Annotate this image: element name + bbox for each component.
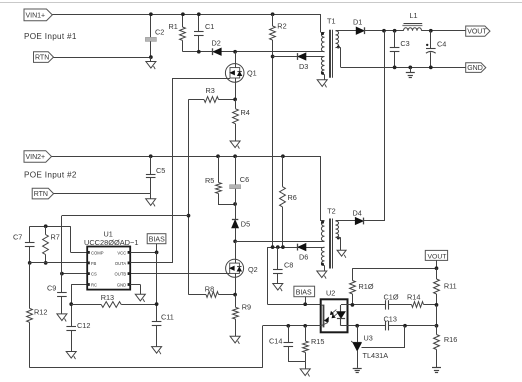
resistor R16	[436, 326, 438, 335]
wire T1 secondary return	[336, 47, 341, 49]
svg-text:C14: C14	[269, 337, 282, 346]
net tag RTN (input 2)	[32, 188, 53, 199]
svg-text:R4: R4	[241, 108, 250, 117]
svg-text:T2: T2	[327, 207, 336, 216]
svg-text:C9: C9	[47, 283, 56, 292]
T1 core	[329, 30, 331, 78]
svg-text:R2: R2	[277, 22, 286, 31]
diode D1	[356, 27, 364, 34]
diode D6	[298, 244, 306, 251]
T1 reset phase dot	[321, 72, 324, 75]
wire bias vertical R2/D3 to D6 node	[272, 40, 274, 247]
svg-text:R1Ø: R1Ø	[359, 282, 374, 291]
ground at C9	[57, 314, 67, 321]
mosfet Q1	[235, 52, 237, 68]
svg-text:R15: R15	[311, 337, 324, 346]
capacitor C6	[233, 154, 237, 158]
capacitor C9	[57, 292, 67, 294]
svg-text:VIN1+: VIN1+	[26, 12, 46, 19]
svg-text:L1: L1	[410, 11, 418, 20]
svg-text:VCC: VCC	[117, 250, 126, 255]
svg-text:C8: C8	[284, 261, 293, 270]
wire OUTA vertical	[172, 78, 174, 263]
wire VIN2+ rail	[52, 156, 321, 158]
junction CS pin / vertical	[60, 272, 64, 276]
resistor R4	[233, 109, 239, 124]
T2 primary winding	[321, 221, 324, 241]
wire D4 to output rail	[364, 220, 384, 222]
junction RC / R13	[69, 302, 73, 306]
ground at C12	[66, 352, 76, 359]
svg-text:Q2: Q2	[248, 265, 258, 274]
svg-text:Q1: Q1	[247, 69, 257, 78]
ground at U1 GND	[135, 294, 145, 301]
svg-text:GND: GND	[467, 65, 483, 72]
wire T2 secondary to D4	[336, 220, 356, 222]
junction C7 bottom / FB line	[28, 261, 32, 265]
wire CS/C9 vertical	[61, 216, 63, 293]
junction VOUT / R11	[435, 266, 439, 270]
svg-text:C11: C11	[161, 313, 174, 322]
resistor R15	[305, 326, 307, 341]
svg-text:TL431A: TL431A	[363, 351, 389, 360]
junction Q2 source / R8 / R9	[233, 293, 237, 297]
junction C3 bottom	[393, 66, 397, 70]
T2 secondary return ground	[336, 237, 341, 239]
wire RTN1	[54, 57, 151, 59]
svg-text:D4: D4	[353, 209, 362, 218]
junction bias vertical	[271, 245, 275, 249]
svg-text:D2: D2	[212, 39, 221, 48]
diode D2	[214, 48, 222, 55]
capacitor C14	[288, 326, 290, 343]
resistor R9	[235, 295, 237, 308]
svg-text:RTN: RTN	[34, 191, 48, 198]
net tag VIN2+	[24, 151, 52, 163]
svg-text:D3: D3	[299, 62, 308, 71]
resistor R7	[44, 224, 48, 228]
capacitor C11	[152, 321, 162, 323]
output top rail	[365, 30, 404, 32]
capacitor C10	[385, 300, 387, 309]
wire CS pin line	[62, 273, 87, 275]
svg-text:R8: R8	[205, 285, 214, 294]
svg-text:C7: C7	[13, 233, 22, 242]
net tag GND	[466, 63, 486, 73]
wire C14/R15 bottom	[288, 361, 305, 363]
junction VCC / BIAS vertical	[155, 251, 159, 255]
junction C4 bottom	[429, 66, 433, 70]
svg-text:R9: R9	[242, 303, 251, 312]
wire VOUT label stub	[436, 260, 438, 268]
T2 reset winding	[321, 247, 324, 265]
ground at C5/RTN2	[150, 194, 152, 199]
capacitor C2	[150, 14, 152, 37]
resistor R3	[189, 99, 205, 101]
net label BIAS at U2	[294, 286, 315, 297]
wire opto emitter line	[263, 325, 321, 327]
wire D3 line	[273, 56, 325, 58]
svg-text:VIN2+: VIN2+	[26, 154, 46, 161]
svg-text:D6: D6	[299, 253, 308, 262]
svg-text:R6: R6	[288, 193, 297, 202]
wire Q2 drain to T2 primary	[235, 241, 324, 243]
junction L1 out / C4 top	[429, 29, 433, 33]
svg-text:VOUT: VOUT	[428, 253, 447, 260]
svg-text:C4: C4	[437, 40, 446, 49]
wire divider to R16	[436, 305, 438, 326]
svg-text:VOUT: VOUT	[467, 29, 487, 36]
resistor R2	[271, 12, 275, 16]
wire BIAS2 stub	[305, 297, 307, 305]
T1 reset ground	[324, 75, 326, 80]
output ground rail	[341, 67, 466, 69]
junction C3 top	[393, 29, 397, 33]
svg-text:R14: R14	[407, 292, 420, 301]
T1 secondary phase dot	[337, 46, 340, 49]
svg-text:BIAS: BIAS	[149, 237, 165, 244]
T2 primary feed	[320, 156, 322, 221]
U2 LED	[341, 304, 348, 306]
wire CS sense vertical	[188, 99, 190, 294]
svg-text:R11: R11	[444, 281, 457, 290]
svg-text:POE Input #1: POE Input #1	[24, 32, 77, 41]
junction C14 top	[286, 324, 290, 328]
svg-text:OUTB: OUTB	[115, 272, 127, 277]
capacitor C8	[277, 247, 279, 270]
diode D3	[298, 53, 306, 60]
capacitor C12	[66, 326, 76, 328]
junction earth ground	[408, 66, 412, 70]
svg-text:R3: R3	[206, 86, 215, 95]
svg-text:C1Ø: C1Ø	[384, 292, 399, 301]
wire COMP network top rail	[30, 226, 71, 228]
wire COMP pin path	[70, 226, 72, 252]
T2 secondary winding	[336, 221, 339, 237]
wire T1 secondary top to D1	[336, 30, 357, 32]
svg-text:U3: U3	[364, 334, 373, 343]
junction C13 / ref vertical	[403, 324, 407, 328]
svg-text:C13: C13	[384, 315, 397, 324]
junction R5 / C6 line	[233, 202, 237, 206]
svg-text:C3: C3	[400, 39, 409, 48]
svg-text:R1: R1	[169, 22, 178, 31]
ground at C2/RTN1	[150, 57, 152, 61]
svg-text:U2: U2	[326, 288, 335, 297]
svg-text:COMP: COMP	[91, 250, 104, 255]
net tag RTN (input 1)	[34, 52, 54, 63]
svg-text:C2: C2	[155, 28, 164, 37]
resistor R5	[216, 154, 220, 158]
svg-text:D1: D1	[353, 18, 362, 27]
svg-text:R5: R5	[205, 176, 214, 185]
resistor R14	[412, 302, 424, 308]
wire feedback bottom rail	[30, 367, 263, 369]
junction BIAS2	[303, 302, 307, 306]
ground at C8	[273, 284, 283, 291]
earth ground output	[410, 67, 412, 72]
capacitor C4 (polarized)	[430, 31, 432, 49]
junction R11 / R14 divider	[435, 303, 439, 307]
junction VIN1 rail / C2	[149, 12, 153, 16]
capacitor C13	[385, 321, 387, 330]
ground at C11	[152, 347, 162, 354]
T1 primary winding	[321, 32, 324, 51]
wire VCC to BIAS	[130, 252, 156, 254]
svg-text:C5: C5	[156, 166, 165, 175]
wire Q1 gate	[173, 78, 230, 80]
svg-text:BIAS: BIAS	[296, 290, 312, 297]
wire bias to opto collector	[267, 247, 269, 304]
capacitor C5	[149, 154, 153, 158]
junction R7 bottom / FB line	[44, 261, 48, 265]
wire opto anode line	[348, 304, 386, 306]
resistor R12	[29, 263, 31, 309]
net tag VOUT (top)	[466, 26, 490, 36]
junction C1 bottom	[197, 50, 201, 54]
T1 secondary winding	[336, 31, 339, 48]
svg-text:C6: C6	[240, 175, 249, 184]
mosfet Q2	[235, 241, 237, 263]
capacitor C7	[29, 226, 31, 242]
earth ground at U3	[353, 368, 362, 370]
earth ground at R16	[432, 367, 441, 369]
ground at R9	[230, 336, 240, 343]
junction R13 right	[155, 302, 159, 306]
wire BIAS vertical to C11	[156, 252, 158, 321]
svg-text:RTN: RTN	[35, 55, 49, 62]
svg-text:C1: C1	[205, 22, 214, 31]
junction Q2 drain node	[233, 239, 237, 243]
T2 secondary phase dot	[337, 237, 340, 240]
wire FB pin line	[30, 262, 87, 264]
wire Q2 gate (OUTB)	[130, 273, 230, 275]
capacitor C1	[198, 14, 200, 32]
diode D4	[355, 218, 363, 225]
T2 primary phase dot	[321, 221, 324, 224]
wire RC pin path	[71, 284, 87, 286]
junction R16 top	[435, 324, 439, 328]
wire D4 feed vertical	[384, 31, 386, 221]
svg-text:R12: R12	[34, 308, 47, 317]
diode D5	[232, 220, 238, 228]
T1 reset winding	[321, 57, 324, 75]
resistor R13	[71, 304, 101, 306]
U2 phototransistor	[323, 305, 325, 328]
U2 light arrows	[332, 310, 337, 314]
wire GND pin	[130, 284, 140, 286]
wire CS horizontal	[62, 215, 189, 217]
net label BIAS at U1	[147, 234, 166, 244]
wire TL431 cathode line	[348, 325, 386, 327]
junction C1 top	[197, 12, 201, 16]
junction Q1 source / R3 / R4	[233, 98, 237, 102]
wire bias line (D6 node)	[267, 247, 324, 249]
junction R10 bottom	[351, 303, 355, 307]
junction CS line	[187, 214, 191, 218]
T1 primary feed	[320, 14, 322, 32]
T1 primary phase dot	[321, 32, 324, 35]
junction Q1 drain node	[233, 50, 237, 54]
svg-text:POE Input #2: POE Input #2	[24, 171, 77, 180]
junction R15 top	[303, 324, 307, 328]
junction R6 bottom	[281, 245, 285, 249]
svg-text:R7: R7	[51, 233, 60, 242]
sheet top border	[0, 2, 522, 4]
wire OUTA pin	[130, 262, 173, 264]
svg-text:D5: D5	[241, 219, 250, 228]
junction D3 line	[271, 55, 275, 59]
resistor R8	[189, 294, 207, 296]
ground at R15	[300, 369, 310, 376]
svg-text:RC: RC	[91, 282, 97, 287]
junction RTN1 / C2	[149, 55, 153, 59]
junction U3 cathode	[355, 324, 359, 328]
wire RTN2	[54, 193, 151, 195]
resistor R11	[436, 268, 438, 279]
wire VIN1+ rail	[52, 14, 321, 16]
resistor R10	[352, 268, 354, 280]
svg-text:R16: R16	[444, 335, 457, 344]
net label VOUT (feedback)	[425, 250, 447, 260]
T2 core	[329, 219, 331, 269]
net tag VIN1+	[24, 9, 52, 21]
junction D4 feed / top rail	[382, 29, 386, 33]
svg-text:FB: FB	[91, 261, 97, 266]
ground at R4	[230, 141, 240, 148]
T2 reset phase dot	[321, 263, 324, 266]
wire ref vertical	[404, 326, 406, 348]
capacitor C3	[394, 31, 396, 48]
inductor L1	[404, 28, 422, 31]
svg-text:C12: C12	[77, 321, 90, 330]
svg-text:OUTA: OUTA	[115, 261, 127, 266]
wire snubber to drain	[183, 51, 325, 53]
resistor R6	[281, 154, 285, 158]
wire VOUT feedback rail	[352, 268, 436, 270]
resistor R1	[182, 14, 184, 27]
svg-text:GND: GND	[117, 282, 126, 287]
junction C8 top	[276, 245, 280, 249]
junction R1 top	[181, 12, 185, 16]
svg-text:R13: R13	[101, 293, 114, 302]
T2 reset ground	[324, 266, 326, 272]
svg-text:CS: CS	[91, 272, 97, 277]
svg-text:T1: T1	[327, 17, 336, 26]
